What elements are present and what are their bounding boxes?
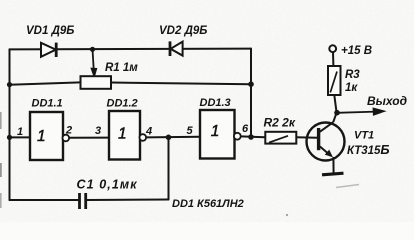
svg-text:VD1 Д9Б: VD1 Д9Б <box>26 25 74 37</box>
svg-text:DD1.2: DD1.2 <box>107 98 138 110</box>
svg-text:1к: 1к <box>345 82 358 94</box>
svg-text:C1 0,1мк: C1 0,1мк <box>77 177 138 191</box>
emitter arrowhead <box>325 150 333 158</box>
svg-text:VD2 Д9Б: VD2 Д9Б <box>159 25 207 37</box>
svg-text:R1 1м: R1 1м <box>105 62 138 74</box>
svg-text:4: 4 <box>145 125 152 137</box>
node dot top (R1 wiper tap) <box>90 47 95 52</box>
wire bottom horizontal left of C1 <box>10 199 79 201</box>
node dot second wire right <box>248 81 254 87</box>
svg-text:1: 1 <box>211 123 220 140</box>
wire R2 to base <box>296 136 317 138</box>
edge smudge left 2 <box>0 163 2 177</box>
wire R3 bottom <box>334 95 336 113</box>
svg-text:VT1: VT1 <box>354 130 374 142</box>
wire R3 top <box>332 52 334 66</box>
node dot pin4 branch <box>166 135 172 141</box>
resistor R3 <box>328 66 341 95</box>
svg-text:КТ315Б: КТ315Б <box>347 142 390 157</box>
node dot left vertical pin1 <box>7 135 12 140</box>
transistor VT1 <box>307 122 345 160</box>
svg-text:DD1.3: DD1.3 <box>200 97 231 109</box>
resistor R2 <box>265 132 296 144</box>
svg-text:R3: R3 <box>345 69 360 81</box>
op gate DD1.2 <box>109 111 146 160</box>
wire output arrow <box>337 109 384 115</box>
svg-text:DD1.1: DD1.1 <box>32 98 63 110</box>
svg-text:+15 В: +15 В <box>341 45 372 57</box>
wire right upper vertical <box>250 49 252 137</box>
speck bottom <box>286 214 288 216</box>
svg-text:1: 1 <box>37 128 46 145</box>
op gate DD1.3 <box>200 110 241 159</box>
svg-text:1: 1 <box>17 126 23 138</box>
wire left vertical <box>9 49 11 200</box>
diode VD2 <box>170 41 183 56</box>
wire bottom horizontal right of C1 <box>87 199 169 202</box>
node dot collector <box>334 110 340 116</box>
ground <box>322 173 344 175</box>
diode VD1 <box>41 43 56 57</box>
wire pin1 <box>10 136 30 138</box>
wire mid vertical from pin4 node down <box>168 137 170 199</box>
capacitor C1 <box>80 193 86 209</box>
node dot pin6 feedback <box>248 134 254 140</box>
wire collector vertical <box>333 113 336 123</box>
smudge under ground <box>336 185 359 188</box>
wire pin2 to pin3 <box>69 137 109 139</box>
node dot second wire left <box>7 82 12 87</box>
wire top horizontal <box>10 48 252 51</box>
wire pin4 to pin5 <box>146 136 200 139</box>
wire pin6 to R2 <box>241 135 266 138</box>
svg-text:R2 2к: R2 2к <box>264 116 296 130</box>
terminal +15V <box>329 45 336 52</box>
svg-text:2: 2 <box>65 125 72 137</box>
op gate DD1.1 <box>30 112 69 160</box>
svg-text:6: 6 <box>242 123 249 135</box>
svg-text:3: 3 <box>95 125 101 137</box>
wire R1 wiper arrow <box>92 49 97 76</box>
resistor R1 <box>81 76 112 89</box>
svg-text:5: 5 <box>187 125 194 137</box>
edge smudge left 3 <box>0 193 2 208</box>
svg-text:1: 1 <box>118 126 127 143</box>
wire emitter vertical <box>332 157 334 174</box>
svg-text:DD1 К561ЛН2: DD1 К561ЛН2 <box>172 198 244 210</box>
edge smudge left 1 <box>0 112 2 129</box>
wire second horizontal <box>10 82 81 84</box>
svg-text:Выход: Выход <box>367 94 407 108</box>
